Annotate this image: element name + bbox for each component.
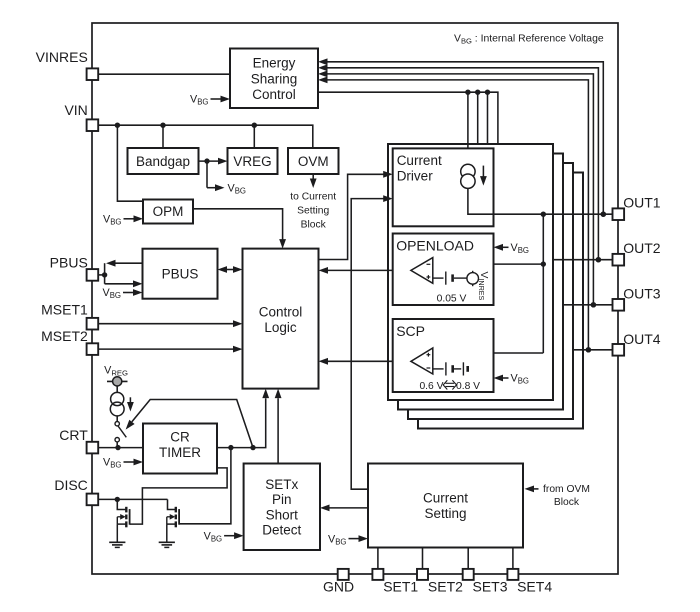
svg-text:Sharing: Sharing	[251, 71, 298, 86]
pin SET4	[507, 569, 552, 595]
VBG arrow into CR TIMER	[103, 457, 143, 470]
wire MSET1 to Control Logic	[98, 320, 242, 327]
wire Bandgap to VREG	[199, 158, 228, 165]
wire Current Setting to SET4	[512, 548, 514, 570]
wire Current Setting to SET2	[422, 548, 424, 570]
pin PBUS	[50, 254, 99, 280]
block Control Logic	[243, 249, 319, 389]
wire sense to OPENLOAD	[433, 263, 544, 265]
battery B1 0.05V	[433, 272, 467, 285]
svg-text:Block: Block	[301, 220, 327, 231]
wire SETx detect to Control Logic	[275, 389, 282, 464]
wire Energy Sharing Control to current drivers	[318, 90, 498, 165]
pin OUT4	[613, 331, 661, 356]
block Current Driver	[393, 148, 494, 226]
ground for Q2	[159, 542, 175, 547]
svg-text:0.6 V: 0.6 V	[419, 381, 443, 392]
svg-text:Short: Short	[266, 507, 299, 522]
wire Bandgap VBG output label	[207, 161, 246, 195]
pin SET1	[372, 569, 418, 595]
wire VIN rail with junctions	[98, 123, 313, 149]
svg-text:SET2: SET2	[428, 579, 463, 595]
wire VIN to OPM	[117, 125, 143, 201]
switch CRT	[115, 422, 126, 448]
wire OPM to Control Logic	[193, 209, 286, 249]
wire CRT pin to CR TIMER	[98, 445, 143, 450]
wire VIN to Bandgap	[162, 125, 164, 148]
wire VINRES to Energy Sharing Control	[98, 73, 230, 75]
svg-text:MSET1: MSET1	[41, 301, 88, 317]
svg-text:OUT3: OUT3	[623, 286, 661, 302]
wire OUT3	[563, 302, 613, 307]
label 0.05 V	[437, 293, 467, 304]
VBG arrow into PBUS	[103, 287, 143, 300]
svg-text:CR: CR	[170, 429, 190, 444]
wire OUT2 sense to Energy Sharing Control	[318, 64, 601, 262]
block U1 Energy Sharing Control	[230, 49, 318, 109]
svg-text:SCP: SCP	[396, 323, 425, 339]
block SCP	[393, 319, 494, 392]
svg-text:Setting: Setting	[424, 506, 466, 521]
wire Current Setting to SET1	[377, 548, 379, 570]
wire CR TIMER to Control Logic	[217, 389, 269, 451]
battery B2 0.6-0.8V	[433, 362, 468, 375]
voltage source VINRES	[467, 271, 489, 301]
block OPENLOAD	[393, 234, 494, 306]
pin SET2	[417, 569, 463, 595]
svg-text:OPM: OPM	[153, 204, 184, 219]
svg-text:OUT4: OUT4	[623, 331, 661, 347]
channel block 4 (back)	[418, 173, 583, 429]
pin OUT1	[613, 195, 661, 221]
svg-text:Pin: Pin	[272, 492, 292, 507]
wire DISC to Q2 drain	[168, 499, 176, 509]
svg-text:Current: Current	[397, 153, 442, 168]
svg-text:PBUS: PBUS	[162, 266, 199, 281]
wire CR TIMER branch to transistor Q2 gate	[179, 448, 231, 524]
pin VIN	[64, 102, 98, 131]
pin OUT2	[613, 240, 661, 266]
svg-text:to Current: to Current	[290, 192, 336, 203]
wire VIN to VREG	[253, 125, 255, 148]
svg-text:Driver: Driver	[397, 169, 434, 184]
svg-text:PBUS: PBUS	[50, 254, 88, 270]
block Current Setting	[368, 464, 523, 548]
svg-text:0.8 V: 0.8 V	[456, 381, 480, 392]
block PBUS	[143, 249, 218, 299]
svg-text:from OVM: from OVM	[543, 484, 590, 495]
wire Control Logic to Current Driver	[319, 171, 393, 260]
svg-text:Energy: Energy	[253, 56, 296, 71]
svg-text:VIN: VIN	[64, 102, 87, 118]
svg-text:Block: Block	[554, 497, 580, 508]
wire OPENLOAD comparator to Control Logic	[319, 267, 411, 274]
VBG arrow into Energy Sharing Control	[190, 94, 230, 107]
wire SCP comparator to Control Logic	[319, 358, 411, 365]
wire VREG to current source	[116, 386, 118, 393]
wire DISC rail	[98, 497, 167, 502]
pin VINRES	[36, 49, 99, 80]
svg-text:Detect: Detect	[262, 523, 301, 538]
wire OUT4	[574, 347, 613, 352]
VBG arrow into SCP	[494, 373, 529, 386]
current source I1 in Current Driver	[461, 164, 487, 188]
wire Current Setting to SET3	[467, 548, 469, 570]
VBG arrow into SETx Pin Short Detect	[204, 530, 244, 543]
svg-text:OPENLOAD: OPENLOAD	[396, 238, 474, 254]
wire PBUS to Control Logic bidirectional	[218, 266, 243, 273]
svg-text:Current: Current	[423, 490, 468, 505]
transistor Q2	[167, 507, 179, 543]
wire OUT4 sense to Energy Sharing Control	[318, 77, 591, 353]
svg-text:SETx: SETx	[265, 477, 298, 492]
pin SET3	[463, 569, 508, 595]
legend VBG internal reference voltage	[454, 33, 604, 45]
block Bandgap	[128, 148, 199, 174]
block SETx Pin Short Detect	[244, 464, 320, 551]
svg-text:TIMER: TIMER	[159, 445, 201, 460]
svg-text:SET3: SET3	[473, 579, 508, 595]
svg-text:OUT1: OUT1	[623, 195, 661, 211]
wire MSET2 to Control Logic	[98, 346, 242, 353]
pin CRT	[59, 427, 98, 453]
ground for Q1	[109, 542, 125, 547]
svg-text:OUT2: OUT2	[623, 240, 661, 256]
pin MSET2	[41, 328, 98, 355]
channel block 3	[408, 163, 573, 419]
svg-text:Logic: Logic	[264, 320, 297, 335]
pin GND	[323, 569, 354, 595]
svg-text:MSET2: MSET2	[41, 328, 88, 344]
wire Current Setting to Current Driver	[351, 195, 393, 489]
wire OUT2	[553, 257, 613, 262]
svg-text:SET1: SET1	[383, 579, 418, 595]
svg-text:CRT: CRT	[59, 427, 88, 443]
transistor Q1	[117, 507, 129, 543]
VREG label	[104, 364, 128, 377]
pin MSET1	[41, 301, 98, 329]
svg-text:Bandgap: Bandgap	[136, 154, 190, 169]
outer border frame	[92, 23, 618, 574]
svg-text:OVM: OVM	[298, 154, 329, 169]
switch control arrow from CR TIMER	[126, 400, 253, 448]
svg-text:Control: Control	[259, 304, 303, 319]
comparator U3 SCP	[411, 348, 433, 374]
wire CR TIMER to transistor Q1 gate	[130, 468, 227, 524]
svg-text:Control: Control	[252, 87, 296, 102]
svg-text:VBG : Internal Reference Volta: VBG : Internal Reference Voltage	[454, 33, 604, 45]
block CR TIMER	[143, 424, 217, 474]
from OVM Block label	[525, 484, 590, 508]
OVM to current setting label	[290, 174, 336, 231]
VBG arrow into Current Setting	[328, 533, 368, 546]
svg-text:SET4: SET4	[517, 579, 552, 595]
svg-text:VREG: VREG	[233, 154, 271, 169]
wire Current Setting to SETx detect	[320, 505, 368, 512]
pin DISC	[54, 477, 98, 505]
VREG supply symbol	[107, 377, 128, 386]
block OVM	[288, 148, 339, 174]
wire OUT1 sense line	[541, 214, 546, 353]
block VREG	[228, 148, 278, 174]
wire PBUS pin to PBUS block	[98, 260, 142, 287]
wire current source to switch	[116, 416, 118, 422]
wire DISC to Q1 drain	[117, 499, 126, 509]
current source symbol	[110, 392, 134, 416]
block OPM	[143, 200, 193, 224]
svg-text:DISC: DISC	[54, 477, 87, 493]
comparator U2 OPENLOAD	[411, 258, 433, 284]
svg-text:VINRES: VINRES	[36, 49, 88, 65]
svg-text:GND: GND	[323, 579, 354, 595]
svg-text:Setting: Setting	[297, 206, 329, 217]
channel block 2	[398, 154, 563, 410]
label 0.6V-0.8V	[419, 380, 480, 392]
wire OUT3 sense to Energy Sharing Control	[318, 71, 596, 308]
wire OUT1 sense to Energy Sharing Control	[318, 58, 606, 217]
pin OUT3	[613, 286, 661, 311]
wire OUT1 from current source	[468, 188, 613, 217]
svg-text:0.05 V: 0.05 V	[437, 293, 467, 304]
wire sense to SCP	[433, 352, 544, 354]
VBG arrow into OPM	[103, 214, 143, 227]
VBG arrow into OPENLOAD	[494, 242, 529, 255]
channel block 1 (front)	[388, 144, 553, 400]
